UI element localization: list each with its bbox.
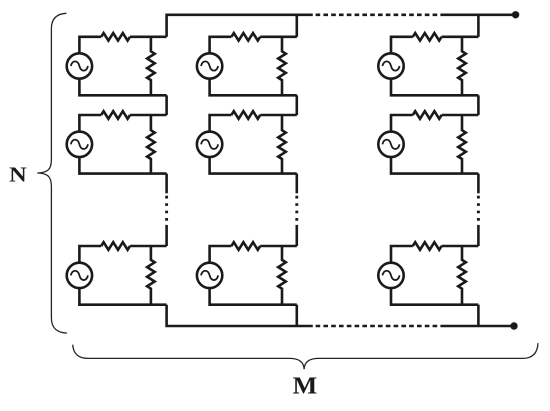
resistor Rs13 (series, horizontal) bbox=[413, 33, 442, 41]
AC source V21 (row 2, column 1) bbox=[67, 132, 92, 157]
resistor Rp33 (shunt, vertical) with leads bbox=[458, 246, 466, 305]
AC source V12 (row 1, column 2) bbox=[197, 53, 222, 78]
resistor Rp31 (shunt, vertical) with leads bbox=[147, 246, 155, 305]
wire: source V23 bottom lead along cell bottom to bus bbox=[391, 157, 478, 174]
resistor Rs23 (series, horizontal) bbox=[413, 111, 442, 119]
resistor Rp11 (shunt, vertical) with leads bbox=[147, 37, 155, 96]
wire: column 3 dotted continuation (more cells) bbox=[477, 196, 480, 222]
terminal dot: top output node bbox=[512, 11, 519, 18]
wire: series resistor Rs11 to column bus node bbox=[130, 35, 167, 38]
resistor Rp13 (shunt, vertical) with leads bbox=[458, 37, 466, 96]
resistor Rs11 (series, horizontal) bbox=[101, 33, 130, 41]
left curly brace spanning N rows bbox=[37, 13, 67, 333]
resistor Rp22 (shunt, vertical) with leads bbox=[278, 115, 286, 174]
wire: column 1 series link into row3 top, solid part bbox=[165, 225, 168, 246]
wire: series resistor Rs21 to column bus node bbox=[130, 114, 167, 117]
wire: source V21 top lead to series resistor bbox=[79, 115, 101, 132]
wire: source V11 bottom lead along cell bottom to bus bbox=[79, 79, 166, 96]
wire: bottom rail left solid segment with column 1 drop bbox=[167, 305, 313, 326]
terminal dot: bottom output node bbox=[510, 322, 517, 329]
AC source V23 (row 2, column 3) bbox=[378, 132, 403, 157]
wire: source V31 top lead to series resistor bbox=[79, 246, 101, 263]
wire: source V12 top lead to series resistor bbox=[210, 37, 232, 54]
wire: source V12 bottom lead along cell bottom to bus bbox=[210, 79, 297, 96]
resistor Rp12 (shunt, vertical) with leads bbox=[278, 37, 286, 96]
wire: column 2 riser to top rail bbox=[295, 15, 298, 37]
AC source V32 (row 3, column 2) bbox=[197, 263, 222, 288]
wire: column 3 series link row1 bottom to row2 top bbox=[477, 95, 480, 115]
wire: column 1 series link row2 bottom, solid part bbox=[165, 174, 168, 194]
wire: series resistor Rs23 to column bus node bbox=[442, 114, 479, 117]
wire: source V13 top lead to series resistor bbox=[391, 37, 413, 54]
wire: series resistor Rs22 to column bus node bbox=[260, 114, 297, 117]
wire: series resistor Rs32 to column bus node bbox=[260, 245, 297, 248]
resistor Rp32 (shunt, vertical) with leads bbox=[278, 246, 286, 305]
wire: source V11 top lead to series resistor bbox=[79, 37, 101, 54]
resistor Rs22 (series, horizontal) bbox=[231, 111, 260, 119]
wire: source V31 bottom lead along cell bottom to bus bbox=[79, 288, 166, 305]
wire: source V33 bottom lead along cell bottom to bus bbox=[391, 288, 478, 305]
wire: source V21 bottom lead along cell bottom to bus bbox=[79, 157, 166, 174]
AC source V31 (row 3, column 1) bbox=[67, 263, 92, 288]
svg-text:N: N bbox=[9, 163, 27, 187]
wire: source V32 top lead to series resistor bbox=[210, 246, 232, 263]
wire: column 2 dotted continuation (more cells) bbox=[295, 196, 298, 222]
AC source V11 (row 1, column 1) bbox=[67, 53, 92, 78]
wire: source V33 top lead to series resistor bbox=[391, 246, 413, 263]
wire: column 2 drop to bottom rail bbox=[295, 305, 298, 326]
wire: top rail dashed continuation segment bbox=[316, 14, 444, 17]
wire: series resistor Rs33 to column bus node bbox=[442, 245, 479, 248]
wire: source V22 bottom lead along cell bottom to bus bbox=[210, 157, 297, 174]
wire: column 3 riser to top rail bbox=[477, 15, 480, 37]
AC source V22 (row 2, column 2) bbox=[197, 132, 222, 157]
wire: source V23 top lead to series resistor bbox=[391, 115, 413, 132]
resistor Rp21 (shunt, vertical) with leads bbox=[147, 115, 155, 174]
resistor Rs33 (series, horizontal) bbox=[413, 242, 442, 250]
wire: column 3 series link into row3 top, solid part bbox=[477, 225, 480, 246]
resistor Rp23 (shunt, vertical) with leads bbox=[458, 115, 466, 174]
resistor Rs32 (series, horizontal) bbox=[231, 242, 260, 250]
wire: top rail left solid segment with column 1 riser bbox=[167, 15, 313, 37]
wire: series resistor Rs13 to column bus node bbox=[442, 35, 479, 38]
wire: column 1 series link row1 bottom to row2 top bbox=[165, 95, 168, 115]
wire: column 2 series link row1 bottom to row2 top bbox=[295, 95, 298, 115]
wire: source V13 bottom lead along cell bottom to bus bbox=[391, 79, 478, 96]
wire: bottom rail dashed continuation segment bbox=[316, 325, 444, 328]
wire: series resistor Rs31 to column bus node bbox=[130, 245, 167, 248]
wire: column 3 drop to bottom rail bbox=[477, 305, 480, 326]
AC source V13 (row 1, column 3) bbox=[378, 53, 403, 78]
wire: source V32 bottom lead along cell bottom to bus bbox=[210, 288, 297, 305]
wire: column 3 series link row2 bottom, solid part bbox=[477, 174, 480, 194]
resistor Rs31 (series, horizontal) bbox=[101, 242, 130, 250]
resistor Rs21 (series, horizontal) bbox=[101, 111, 130, 119]
wire: source V22 top lead to series resistor bbox=[210, 115, 232, 132]
wire: column 2 series link into row3 top, solid part bbox=[295, 225, 298, 246]
AC source V33 (row 3, column 3) bbox=[378, 263, 403, 288]
wire: top rail right solid segment to positive terminal bbox=[444, 14, 516, 17]
wire: column 2 series link row2 bottom, solid part bbox=[295, 174, 298, 194]
wire: series resistor Rs12 to column bus node bbox=[260, 35, 297, 38]
bottom curly brace spanning M columns bbox=[73, 343, 538, 369]
svg-text:M: M bbox=[293, 373, 318, 400]
wire: column 1 dotted continuation (more cells) bbox=[165, 196, 168, 222]
resistor Rs12 (series, horizontal) bbox=[231, 33, 260, 41]
wire: bottom rail right solid segment to negative terminal bbox=[444, 325, 514, 328]
